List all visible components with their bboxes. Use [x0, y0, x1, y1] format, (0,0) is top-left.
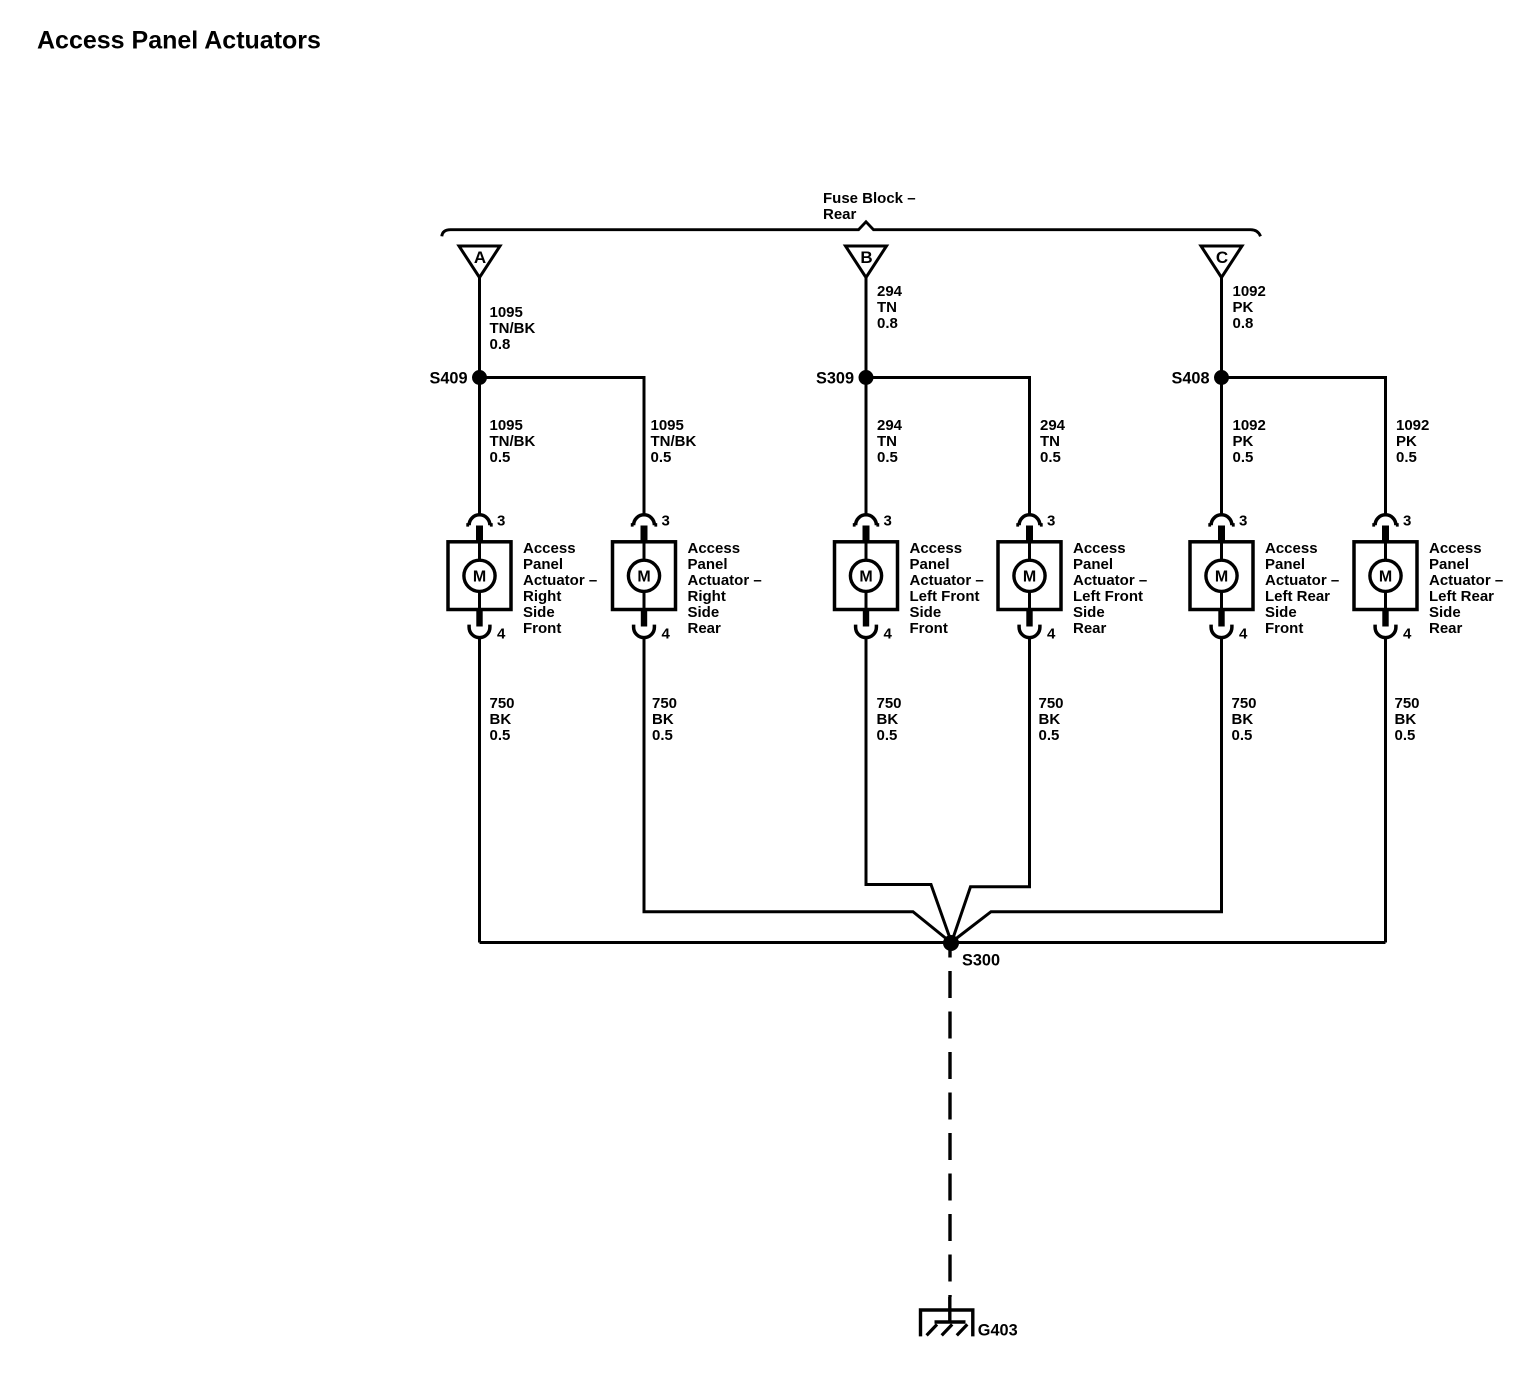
label G403: [978, 1321, 1018, 1339]
actuator 2 case (Right Side Rear): [613, 542, 676, 610]
wire label: 1095 TN/BK 0.8 (circuit from connector A): [490, 304, 536, 353]
svg-text:0.8: 0.8: [877, 315, 898, 332]
title: Access Panel Actuators: [37, 27, 321, 55]
svg-text:750: 750: [877, 695, 902, 712]
svg-text:1095: 1095: [651, 417, 684, 434]
pin number 3, actuator 6: [1403, 513, 1411, 530]
svg-text:294: 294: [877, 417, 903, 434]
wire: actuator 5 pin 4 to S300 (750 BK): [951, 638, 1222, 943]
wire: actuator 4 pin 4 to S300 (750 BK): [952, 638, 1030, 943]
pin number 3, actuator 3: [884, 513, 892, 530]
svg-text:Actuator –: Actuator –: [523, 572, 597, 589]
component label: Access Panel Actuator - Right Side Rear: [688, 540, 762, 637]
wire label: 750 BK 0.5 (actuator 2 ground lead): [652, 695, 677, 744]
connector arc: actuator 4 pin 4 (bottom): [1019, 625, 1040, 638]
svg-text:1092: 1092: [1396, 417, 1429, 434]
connector A (Fuse Block - Rear terminal): [459, 246, 500, 278]
svg-text:0.5: 0.5: [651, 449, 672, 466]
svg-text:Left Front: Left Front: [1073, 588, 1143, 605]
connector B (Fuse Block - Rear terminal): [846, 246, 887, 278]
svg-text:4: 4: [662, 626, 671, 643]
svg-text:Fuse Block –: Fuse Block –: [823, 190, 916, 207]
svg-text:0.5: 0.5: [1040, 449, 1061, 466]
svg-text:Access: Access: [523, 540, 576, 557]
wire label: 750 BK 0.5 (actuator 3 ground lead): [877, 695, 902, 744]
svg-text:PK: PK: [1396, 433, 1417, 450]
svg-text:1095: 1095: [490, 304, 523, 321]
svg-text:G403: G403: [978, 1321, 1018, 1339]
pin number 3, actuator 4: [1047, 513, 1055, 530]
svg-text:Side: Side: [910, 604, 942, 621]
svg-text:PK: PK: [1233, 299, 1254, 316]
svg-text:3: 3: [1047, 513, 1055, 530]
svg-text:Actuator –: Actuator –: [1073, 572, 1147, 589]
svg-text:Rear: Rear: [1073, 620, 1107, 637]
connector arc: actuator 6 pin 3 (top): [1372, 515, 1398, 525]
svg-text:750: 750: [1039, 695, 1064, 712]
svg-text:3: 3: [1239, 513, 1247, 530]
wire: S309 branch to actuator 4 pin 3 (294 TN): [866, 378, 1030, 517]
svg-text:750: 750: [1395, 695, 1420, 712]
svg-text:Left Rear: Left Rear: [1265, 588, 1330, 605]
wire label: 1092 PK 0.5 (feed to actuator 5): [1233, 417, 1266, 466]
svg-text:Rear: Rear: [1429, 620, 1463, 637]
svg-text:S309: S309: [816, 370, 854, 388]
svg-text:750: 750: [490, 695, 515, 712]
pin stub: actuator 5 pin 3 into case: [1218, 526, 1225, 543]
svg-text:Side: Side: [1429, 604, 1461, 621]
pin stub: actuator 5 pin 4 out of case: [1218, 611, 1224, 627]
connector arc: actuator 3 pin 4 (bottom): [856, 625, 877, 638]
svg-text:S408: S408: [1171, 370, 1209, 388]
pin stub: actuator 2 pin 3 into case: [641, 526, 648, 543]
connector arc: actuator 1 pin 4 (bottom): [469, 625, 490, 638]
motor M symbol, actuator 5: [1206, 542, 1237, 611]
wire: S300 to ground G403 (dashed): [948, 943, 952, 1322]
label: Fuse Block - Rear: [823, 190, 916, 223]
svg-text:M: M: [859, 569, 872, 586]
svg-text:BK: BK: [1395, 711, 1417, 728]
svg-text:Side: Side: [523, 604, 555, 621]
component label: Access Panel Actuator - Left Rear Side Front: [1265, 540, 1339, 637]
svg-text:Side: Side: [688, 604, 720, 621]
actuator 4 case (Left Front Side Rear): [998, 542, 1061, 610]
pin stub: actuator 6 pin 4 out of case: [1382, 611, 1388, 627]
svg-text:BK: BK: [877, 711, 899, 728]
svg-text:B: B: [860, 248, 872, 267]
motor M symbol, actuator 4: [1014, 542, 1045, 611]
wire: connector A to S409 to actuator 1 pin 3 (1095 TN/BK): [478, 277, 481, 517]
svg-text:C: C: [1216, 248, 1228, 267]
svg-text:0.5: 0.5: [1233, 449, 1254, 466]
wire label: 1092 PK 0.8 (circuit from connector C): [1233, 283, 1266, 332]
svg-text:1092: 1092: [1233, 417, 1266, 434]
pin stub: actuator 2 pin 4 out of case: [641, 611, 647, 627]
svg-text:BK: BK: [1039, 711, 1061, 728]
svg-text:M: M: [1215, 569, 1228, 586]
svg-text:750: 750: [1232, 695, 1257, 712]
splice S409 (junction dot): [472, 370, 487, 385]
component label: Access Panel Actuator - Right Side Front: [523, 540, 597, 637]
wire label: 750 BK 0.5 (actuator 5 ground lead): [1232, 695, 1257, 744]
splice S408 (junction dot): [1214, 370, 1229, 385]
svg-text:Front: Front: [523, 620, 561, 637]
svg-text:294: 294: [1040, 417, 1066, 434]
component label: Access Panel Actuator - Left Rear Side Rear: [1429, 540, 1503, 637]
wire label: 750 BK 0.5 (actuator 6 ground lead): [1395, 695, 1420, 744]
pin stub: actuator 3 pin 4 out of case: [863, 611, 869, 627]
svg-text:0.5: 0.5: [1395, 727, 1416, 744]
pin number 4, actuator 6: [1403, 626, 1412, 643]
svg-text:750: 750: [652, 695, 677, 712]
label S408: [1171, 370, 1209, 388]
bracket: Fuse Block - Rear (spans connectors A, B, C): [442, 222, 1261, 237]
svg-text:0.5: 0.5: [490, 727, 511, 744]
connector arc: actuator 5 pin 3 (top): [1208, 515, 1234, 525]
actuator 1 case (Right Side Front): [448, 542, 511, 610]
connector arc: actuator 2 pin 3 (top): [631, 515, 657, 525]
svg-text:Actuator –: Actuator –: [1429, 572, 1503, 589]
component label: Access Panel Actuator - Left Front Side Front: [910, 540, 984, 637]
svg-text:1092: 1092: [1233, 283, 1266, 300]
label S300: [962, 952, 1000, 970]
svg-text:BK: BK: [490, 711, 512, 728]
svg-text:A: A: [474, 248, 486, 267]
pin number 3, actuator 2: [662, 513, 670, 530]
wire label: 294 TN 0.8 (circuit from connector B): [877, 283, 903, 332]
svg-text:Access Panel Actuators: Access Panel Actuators: [37, 27, 321, 55]
svg-text:0.5: 0.5: [877, 449, 898, 466]
actuator 6 case (Left Rear Side Rear): [1354, 542, 1417, 610]
svg-text:M: M: [1379, 569, 1392, 586]
connector arc: actuator 3 pin 3 (top): [853, 515, 879, 525]
svg-text:Access: Access: [1265, 540, 1318, 557]
svg-text:BK: BK: [652, 711, 674, 728]
svg-text:TN/BK: TN/BK: [490, 320, 536, 337]
wire: actuator 1 pin 4 down to ground bus (750 BK): [478, 638, 481, 943]
pin number 4, actuator 1: [497, 626, 506, 643]
svg-text:Right: Right: [523, 588, 561, 605]
svg-text:Actuator –: Actuator –: [688, 572, 762, 589]
connector arc: actuator 5 pin 4 (bottom): [1211, 625, 1232, 638]
svg-text:Panel: Panel: [1073, 556, 1113, 573]
connector arc: actuator 6 pin 4 (bottom): [1375, 625, 1396, 638]
svg-text:0.5: 0.5: [490, 449, 511, 466]
svg-text:Front: Front: [910, 620, 948, 637]
svg-text:0.5: 0.5: [877, 727, 898, 744]
svg-text:4: 4: [497, 626, 506, 643]
svg-text:Access: Access: [688, 540, 741, 557]
svg-text:M: M: [473, 569, 486, 586]
svg-text:3: 3: [497, 513, 505, 530]
svg-text:PK: PK: [1233, 433, 1254, 450]
wire label: 750 BK 0.5 (actuator 4 ground lead): [1039, 695, 1064, 744]
svg-text:TN/BK: TN/BK: [651, 433, 697, 450]
svg-text:3: 3: [1403, 513, 1411, 530]
motor M symbol, actuator 3: [850, 542, 881, 611]
svg-text:Access: Access: [910, 540, 963, 557]
pin stub: actuator 1 pin 3 into case: [476, 526, 483, 543]
pin number 4, actuator 3: [884, 626, 893, 643]
svg-text:TN: TN: [1040, 433, 1060, 450]
pin number 3, actuator 1: [497, 513, 505, 530]
wire: actuator 3 pin 4 to S300 (750 BK): [866, 638, 952, 943]
svg-text:Side: Side: [1265, 604, 1297, 621]
component label: Access Panel Actuator - Left Front Side Rear: [1073, 540, 1147, 637]
svg-text:Access: Access: [1073, 540, 1126, 557]
pin number 4, actuator 2: [662, 626, 671, 643]
wire label: 1095 TN/BK 0.5 (feed to actuator 1): [490, 417, 536, 466]
motor M symbol, actuator 2: [628, 542, 659, 611]
wire: connector C to S408 to actuator 5 pin 3 (1092 PK): [1220, 277, 1223, 517]
svg-text:Left Front: Left Front: [910, 588, 980, 605]
svg-text:294: 294: [877, 283, 903, 300]
svg-text:S300: S300: [962, 952, 1000, 970]
svg-text:Front: Front: [1265, 620, 1303, 637]
svg-text:TN/BK: TN/BK: [490, 433, 536, 450]
svg-text:3: 3: [662, 513, 670, 530]
wire: actuator 2 pin 4 to S300 (750 BK): [644, 638, 951, 943]
svg-text:Panel: Panel: [1265, 556, 1305, 573]
pin number 4, actuator 5: [1239, 626, 1248, 643]
svg-text:TN: TN: [877, 299, 897, 316]
svg-text:Actuator –: Actuator –: [910, 572, 984, 589]
svg-text:TN: TN: [877, 433, 897, 450]
svg-text:4: 4: [1047, 626, 1056, 643]
connector C (Fuse Block - Rear terminal): [1201, 246, 1242, 278]
wire: connector B to S309 to actuator 3 pin 3 (294 TN): [865, 277, 868, 517]
svg-text:4: 4: [1403, 626, 1412, 643]
svg-text:Access: Access: [1429, 540, 1482, 557]
svg-text:1095: 1095: [490, 417, 523, 434]
pin number 3, actuator 5: [1239, 513, 1247, 530]
connector arc: actuator 1 pin 3 (top): [466, 515, 492, 525]
svg-text:3: 3: [884, 513, 892, 530]
pin stub: actuator 4 pin 4 out of case: [1026, 611, 1032, 627]
wire label: 750 BK 0.5 (actuator 1 ground lead): [490, 695, 515, 744]
ground G403: [921, 1310, 973, 1336]
svg-text:4: 4: [884, 626, 893, 643]
svg-text:M: M: [637, 569, 650, 586]
svg-text:Panel: Panel: [910, 556, 950, 573]
svg-text:0.5: 0.5: [1396, 449, 1417, 466]
label S309: [816, 370, 854, 388]
wire label: 294 TN 0.5 (feed to actuator 4): [1040, 417, 1066, 466]
motor M symbol, actuator 1: [464, 542, 495, 611]
svg-text:0.5: 0.5: [1039, 727, 1060, 744]
wire label: 1092 PK 0.5 (feed to actuator 6): [1396, 417, 1429, 466]
svg-text:0.8: 0.8: [490, 336, 511, 353]
splice S300 (ground junction dot): [943, 935, 959, 951]
pin stub: actuator 3 pin 3 into case: [863, 526, 870, 543]
svg-text:Panel: Panel: [523, 556, 563, 573]
svg-text:BK: BK: [1232, 711, 1254, 728]
pin number 4, actuator 4: [1047, 626, 1056, 643]
actuator 5 case (Left Rear Side Front): [1190, 542, 1253, 610]
svg-text:Right: Right: [688, 588, 726, 605]
pin stub: actuator 1 pin 4 out of case: [476, 611, 482, 627]
label S409: [429, 370, 467, 388]
svg-text:Actuator –: Actuator –: [1265, 572, 1339, 589]
pin stub: actuator 4 pin 3 into case: [1026, 526, 1033, 543]
connector arc: actuator 4 pin 3 (top): [1016, 515, 1042, 525]
wire: actuator 6 pin 4 down to ground bus (750 BK): [1384, 638, 1387, 943]
splice S309 (junction dot): [859, 370, 874, 385]
svg-text:S409: S409: [429, 370, 467, 388]
svg-text:Side: Side: [1073, 604, 1105, 621]
svg-text:4: 4: [1239, 626, 1248, 643]
svg-text:0.8: 0.8: [1233, 315, 1254, 332]
wire: S408 branch to actuator 6 pin 3 (1092 PK): [1222, 378, 1386, 517]
wire label: 294 TN 0.5 (feed to actuator 3): [877, 417, 903, 466]
motor M symbol, actuator 6: [1370, 542, 1401, 611]
svg-text:Panel: Panel: [688, 556, 728, 573]
svg-text:Left Rear: Left Rear: [1429, 588, 1494, 605]
svg-text:0.5: 0.5: [652, 727, 673, 744]
pin stub: actuator 6 pin 3 into case: [1382, 526, 1389, 543]
wire: S409 branch to actuator 2 pin 3 (1095 TN/BK): [480, 378, 645, 517]
svg-text:0.5: 0.5: [1232, 727, 1253, 744]
wire: ground bus from actuator 1 to actuator 6 through S300: [480, 941, 1386, 944]
wire label: 1095 TN/BK 0.5 (feed to actuator 2): [651, 417, 697, 466]
connector arc: actuator 2 pin 4 (bottom): [634, 625, 655, 638]
svg-text:Rear: Rear: [823, 206, 857, 223]
svg-text:Panel: Panel: [1429, 556, 1469, 573]
svg-text:M: M: [1023, 569, 1036, 586]
actuator 3 case (Left Front Side Front): [835, 542, 898, 610]
svg-text:Rear: Rear: [688, 620, 722, 637]
